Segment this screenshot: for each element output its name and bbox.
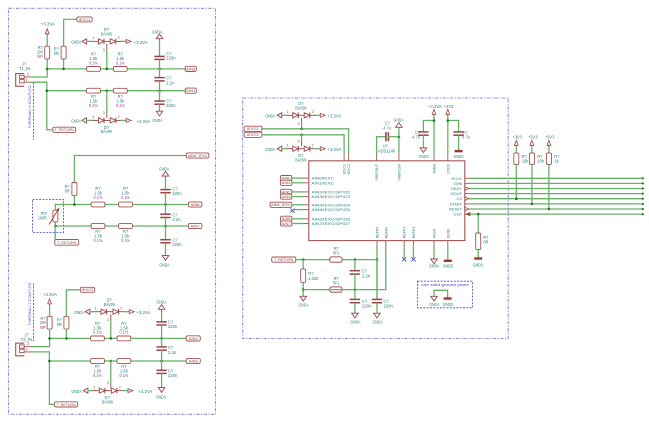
wire xyxy=(49,403,54,405)
pin IEXC2 (top) xyxy=(348,153,350,161)
svg-text:DRDY: DRDY xyxy=(451,187,462,191)
net label AIN6 xyxy=(188,202,202,207)
svg-text:GNDA: GNDA xyxy=(156,394,166,399)
svg-text:0.1%: 0.1% xyxy=(116,103,125,108)
svg-text:THERMALLY COUPLED: THERMALLY COUPLED xyxy=(27,282,32,325)
svg-text:0.1%: 0.1% xyxy=(94,238,103,243)
wire net RESET (to header) xyxy=(470,208,643,210)
net label T_RETURN (T2) xyxy=(55,402,78,407)
svg-text:1: 1 xyxy=(26,348,28,352)
analog ground symbol GNDA (below C filter T2) xyxy=(158,388,165,393)
svg-text:3.3n: 3.3n xyxy=(168,350,177,355)
svg-text:1: 1 xyxy=(95,307,97,311)
digital ground symbol GNDD (plane note) xyxy=(444,297,452,299)
svg-text:+3.3VA: +3.3VA xyxy=(134,40,148,45)
svg-text:2: 2 xyxy=(27,72,29,76)
svg-text:GNDD: GNDD xyxy=(443,302,453,307)
wire xyxy=(65,329,67,338)
svg-text:GNDA: GNDA xyxy=(159,263,169,268)
wire xyxy=(119,311,124,313)
svg-text:AIN4_IEXC: AIN4_IEXC xyxy=(188,153,208,158)
wire ground tie xyxy=(434,290,448,297)
analog ground symbol GNDA (AVDD cap) xyxy=(420,148,427,153)
analog ground symbol GNDA (below C filter RTD) xyxy=(162,256,169,261)
svg-text:IEXC2: IEXC2 xyxy=(347,164,351,175)
analog ground symbol GNDA (REFN0 cap) xyxy=(352,313,359,318)
pin RESET (right) xyxy=(465,208,471,210)
wire xyxy=(73,196,75,205)
svg-text:+3.3VA: +3.3VA xyxy=(138,389,152,394)
analog ground symbol GNDA (AVSS) xyxy=(431,259,438,264)
wire xyxy=(389,136,399,138)
pin VREFOUT (top) xyxy=(376,153,378,161)
svg-text:+3.3VA: +3.3VA xyxy=(43,292,57,297)
svg-text:2.2n: 2.2n xyxy=(362,273,371,278)
svg-text:+3V3: +3V3 xyxy=(545,135,555,140)
svg-text:3: 3 xyxy=(107,381,109,385)
frame: right ADC block dashed border xyxy=(243,98,509,339)
wire xyxy=(282,114,288,116)
frame: RTD dashed box xyxy=(33,200,64,233)
svg-text:2: 2 xyxy=(120,307,122,311)
wire xyxy=(32,338,50,346)
svg-text:100R: 100R xyxy=(38,215,47,220)
svg-text:0.1%: 0.1% xyxy=(89,103,98,108)
wire xyxy=(422,121,424,132)
svg-text:RESET: RESET xyxy=(449,208,463,212)
digital ground symbol GNDD (DGND) xyxy=(444,260,452,262)
svg-text:AIN3: AIN3 xyxy=(189,358,198,363)
svg-text:1: 1 xyxy=(26,78,28,82)
svg-text:220n: 220n xyxy=(362,304,372,309)
wire xyxy=(159,82,161,91)
pin AIN2/IEXC/GPIO2 (left) xyxy=(303,191,309,193)
pin AIN0/IEXC (left) xyxy=(303,177,309,179)
svg-text:+3.3VA: +3.3VA xyxy=(327,147,341,152)
svg-text:CLK: CLK xyxy=(454,213,463,217)
wire net T1+ (to AIN0) xyxy=(47,68,185,70)
wire xyxy=(90,311,96,313)
wire xyxy=(447,116,449,153)
wire xyxy=(165,205,167,214)
svg-text:220n: 220n xyxy=(172,191,182,196)
no-connect X (AIN5) xyxy=(290,209,294,213)
pin CLK (right) xyxy=(465,213,471,215)
svg-text:1: 1 xyxy=(92,115,94,119)
wire net REFP0 filter xyxy=(296,259,377,261)
svg-text:220n: 220n xyxy=(383,304,393,309)
wire xyxy=(32,69,47,77)
wire xyxy=(448,120,459,122)
wire xyxy=(161,374,163,387)
net label IEXC1 (right box) xyxy=(244,126,262,131)
wire xyxy=(54,205,56,211)
net label T_RETURN (RTD) xyxy=(55,240,79,246)
svg-text:AIN4_IEXC: AIN4_IEXC xyxy=(271,202,291,207)
wire xyxy=(117,390,122,392)
frame: thermally coupled dashed line (T2) xyxy=(33,283,35,342)
svg-text:220n: 220n xyxy=(168,324,178,329)
svg-text:IEXC1: IEXC1 xyxy=(343,164,347,175)
wire xyxy=(310,148,315,150)
svg-text:AIN3/IEXC/GPIO3: AIN3/IEXC/GPIO3 xyxy=(312,195,351,199)
wire xyxy=(88,390,94,392)
wire xyxy=(63,59,65,69)
svg-text:2: 2 xyxy=(118,36,120,40)
svg-text:GNDA: GNDA xyxy=(419,154,429,159)
svg-text:SCLK: SCLK xyxy=(452,177,463,181)
wire REFN0 net xyxy=(385,246,387,289)
svg-text:2: 2 xyxy=(118,115,120,119)
svg-text:1: 1 xyxy=(286,110,288,114)
svg-text:1: 1 xyxy=(92,36,94,40)
analog ground symbol GNDA (VREFCOM) xyxy=(396,123,403,128)
pin START (right) xyxy=(465,203,471,205)
svg-text:GNDA: GNDA xyxy=(71,40,81,45)
svg-text:220n: 220n xyxy=(166,103,176,108)
wire REFN1 stub xyxy=(412,246,414,257)
svg-text:REFN1: REFN1 xyxy=(412,227,416,239)
wire DGND xyxy=(447,246,449,259)
net label T_RETURN (T1) xyxy=(53,127,76,132)
pin 3 centre tap xyxy=(110,314,112,319)
svg-text:AIN6: AIN6 xyxy=(191,202,200,207)
wire net CS (to header) xyxy=(470,198,643,200)
power symbol +3.3VA xyxy=(126,40,131,44)
svg-text:0R: 0R xyxy=(65,188,70,193)
svg-text:T1_IN: T1_IN xyxy=(19,66,30,71)
wire xyxy=(74,156,186,183)
svg-text:DGND: DGND xyxy=(446,228,450,238)
net label IEXC2 (right box) xyxy=(244,132,262,137)
pin AIN6/IEXC/GPIO6 (left) xyxy=(303,218,309,220)
wire xyxy=(531,165,533,204)
pin AIN4/IEXC/GPIO4 (left) xyxy=(303,204,309,206)
wire xyxy=(515,147,517,153)
wire xyxy=(46,36,48,47)
svg-text:0.1%: 0.1% xyxy=(116,60,125,65)
pin AIN7/IEXC/GPIO7 (left) xyxy=(303,223,309,225)
power symbol +3.3VA xyxy=(320,147,325,151)
wire net DIN (to header) xyxy=(470,182,643,184)
svg-text:0.1%: 0.1% xyxy=(119,330,128,335)
pin REFN0 (bottom) xyxy=(385,241,387,247)
wire net T1- (to AIN1) xyxy=(47,90,185,92)
wire xyxy=(161,326,163,339)
svg-text:AIN3: AIN3 xyxy=(282,194,291,199)
wire net SCLK (to header) xyxy=(470,177,643,179)
wire net T2- (to AIN3) xyxy=(49,360,186,362)
no-connect X (REFN1) xyxy=(411,257,415,261)
net label AIN1 (right box) xyxy=(281,180,292,185)
wire xyxy=(422,136,424,148)
frame: left input block dashed border xyxy=(9,8,216,414)
wire xyxy=(159,60,161,69)
wire xyxy=(302,282,304,296)
power symbol +3.3VA xyxy=(320,113,325,117)
pin DVDD (top) xyxy=(447,153,449,161)
svg-text:VREFCOM: VREFCOM xyxy=(397,164,401,181)
svg-text:2: 2 xyxy=(119,385,121,389)
svg-text:AIN6/IEXC/GPIO6: AIN6/IEXC/GPIO6 xyxy=(312,217,351,221)
wire xyxy=(292,196,303,198)
svg-text:T_RETURN: T_RETURN xyxy=(274,257,293,262)
wire IEXC1 net xyxy=(262,129,349,153)
wire xyxy=(64,19,77,46)
svg-text:0.1%: 0.1% xyxy=(93,373,102,378)
svg-text:220n: 220n xyxy=(168,373,178,378)
wire xyxy=(54,226,56,242)
power symbol +3.3VA xyxy=(128,389,133,393)
svg-text:GNDA: GNDA xyxy=(265,114,275,119)
svg-text:0.1%: 0.1% xyxy=(119,373,128,378)
svg-text:AIN7: AIN7 xyxy=(282,221,291,226)
pin AVDD (top) xyxy=(433,153,435,161)
svg-text:RF1: RF1 xyxy=(333,251,340,256)
svg-text:T_RETURN: T_RETURN xyxy=(57,402,76,407)
wire xyxy=(531,147,533,153)
svg-text:CS: CS xyxy=(457,197,463,201)
svg-text:220n: 220n xyxy=(166,55,176,60)
wire xyxy=(54,222,56,226)
svg-text:GNDA: GNDA xyxy=(298,302,308,307)
wire xyxy=(66,290,80,317)
wire xyxy=(161,338,163,346)
wire xyxy=(398,128,400,137)
svg-text:2: 2 xyxy=(27,342,29,346)
wire xyxy=(310,114,315,116)
net label AIN3 (right box) xyxy=(281,194,292,199)
net label AIN2 xyxy=(186,336,200,341)
diode D? BAV99 (dual) xyxy=(293,146,299,151)
net label AIN0 (right box) xyxy=(281,176,292,181)
svg-text:BAV99: BAV99 xyxy=(101,32,113,37)
svg-text:BAV99: BAV99 xyxy=(102,399,114,404)
svg-text:3: 3 xyxy=(298,122,300,126)
digital ground symbol GNDD (DVDD cap) xyxy=(455,150,463,152)
svg-text:2.2n: 2.2n xyxy=(166,80,175,85)
svg-text:3: 3 xyxy=(103,48,105,52)
diode D? BAV99 (dual) xyxy=(293,113,299,118)
svg-text:GNDA: GNDA xyxy=(152,118,162,123)
svg-text:+3.3VA: +3.3VA xyxy=(136,119,150,124)
svg-text:2.2n: 2.2n xyxy=(172,217,181,222)
svg-text:GNDA: GNDA xyxy=(152,29,162,34)
pin DOUT (right) xyxy=(465,193,471,195)
pin IEXC1 (top) xyxy=(343,153,345,161)
svg-text:one solid ground plane: one solid ground plane xyxy=(421,283,469,287)
svg-text:0R: 0R xyxy=(54,51,59,56)
pin AIN1/IEXC (left) xyxy=(303,182,309,184)
pin DIN (right) xyxy=(465,182,471,184)
svg-text:T_RETURN: T_RETURN xyxy=(57,240,76,245)
wire IEXC2 net xyxy=(262,135,344,153)
svg-text:2: 2 xyxy=(312,110,314,114)
wire xyxy=(292,177,303,179)
svg-text:0.1%: 0.1% xyxy=(93,330,102,335)
wire xyxy=(292,191,303,193)
net label AIN0 xyxy=(185,66,196,71)
svg-text:NP: NP xyxy=(40,325,46,330)
wire xyxy=(477,250,479,258)
svg-text:1: 1 xyxy=(286,144,288,148)
svg-text:+3V3: +3V3 xyxy=(444,104,454,109)
pin REFN1 (bottom) xyxy=(412,241,414,247)
svg-text:IEXC1: IEXC1 xyxy=(79,17,91,22)
pin 3 centre tap xyxy=(301,118,303,123)
wire xyxy=(49,329,51,338)
svg-text:VREFOUT: VREFOUT xyxy=(375,163,379,180)
wire xyxy=(159,69,161,77)
svg-text:U?: U? xyxy=(383,143,389,148)
svg-text:AIN2: AIN2 xyxy=(189,336,198,341)
svg-text:T_RETURN: T_RETURN xyxy=(55,127,74,132)
svg-text:GNDD: GNDD xyxy=(453,154,463,159)
svg-text:AIN5/IEXC/GPIO5: AIN5/IEXC/GPIO5 xyxy=(312,208,351,212)
wire xyxy=(292,204,303,206)
wire xyxy=(292,182,303,184)
wire net RTD+ (to AIN6) xyxy=(55,204,188,206)
svg-text:0.1%: 0.1% xyxy=(89,60,98,65)
wire xyxy=(423,120,434,122)
svg-text:AIN4/IEXC/GPIO4: AIN4/IEXC/GPIO4 xyxy=(312,203,351,207)
net label AIN4_IEXC (right box) xyxy=(270,202,292,207)
svg-text:IEXC1: IEXC1 xyxy=(247,126,259,131)
wire xyxy=(433,116,435,153)
pin 3 centre tap xyxy=(106,44,108,49)
svg-text:AIN0/IEXC: AIN0/IEXC xyxy=(312,177,335,181)
svg-text:10k: 10k xyxy=(537,159,545,164)
digital ground symbol GNDD (CLK R) xyxy=(474,257,482,259)
wire xyxy=(292,218,303,220)
svg-text:BAV99: BAV99 xyxy=(104,302,116,307)
svg-text:AIN1: AIN1 xyxy=(186,88,195,93)
svg-text:AIN7: AIN7 xyxy=(191,223,200,228)
net label IEXC1 (left box) xyxy=(77,17,92,22)
wire xyxy=(398,137,400,154)
analog ground symbol GNDA (ref resistor) xyxy=(300,296,307,301)
svg-text:+3.3VA: +3.3VA xyxy=(41,22,55,27)
svg-text:GNDD: GNDD xyxy=(473,262,483,267)
wire xyxy=(110,320,112,339)
wire xyxy=(548,147,550,153)
wire net RTD- (to AIN7) xyxy=(55,225,188,227)
wire xyxy=(301,123,303,129)
wire xyxy=(32,82,47,130)
net label AIN3 xyxy=(186,358,200,363)
net label IEXC2 (left box) xyxy=(80,287,94,292)
svg-text:+3V3: +3V3 xyxy=(528,135,538,140)
wire xyxy=(116,40,121,42)
svg-text:AVSS: AVSS xyxy=(433,228,437,238)
wire xyxy=(295,209,304,211)
svg-text:BAV99: BAV99 xyxy=(101,129,113,134)
svg-text:1: 1 xyxy=(93,385,95,389)
wire xyxy=(106,91,108,113)
svg-text:GNDA: GNDA xyxy=(393,117,403,122)
wire xyxy=(477,214,479,233)
svg-text:GNDA: GNDA xyxy=(429,263,439,268)
wire xyxy=(282,148,288,150)
svg-text:GNDA: GNDA xyxy=(71,389,81,394)
svg-text:GNDA: GNDA xyxy=(74,310,84,315)
svg-text:+3.3VA: +3.3VA xyxy=(327,114,341,119)
svg-text:GNDA: GNDA xyxy=(372,320,382,325)
svg-text:+3V3: +3V3 xyxy=(512,135,522,140)
svg-text:NP: NP xyxy=(37,54,43,59)
op-amp / ADC U? ADS1248 body xyxy=(309,161,465,241)
svg-text:RF1: RF1 xyxy=(333,281,340,286)
svg-text:+3.3VA: +3.3VA xyxy=(136,310,150,315)
svg-text:0R: 0R xyxy=(483,240,488,245)
diode D? BAV99 (dual) xyxy=(98,39,104,44)
net label AIN7 xyxy=(188,223,202,228)
svg-text:AIN1: AIN1 xyxy=(282,180,291,185)
wire xyxy=(165,193,167,204)
net label AIN4_IEXC xyxy=(186,153,209,158)
analog ground symbol GNDA (plane note) xyxy=(431,296,438,301)
svg-text:3: 3 xyxy=(103,111,105,115)
wire AVSS xyxy=(433,246,435,259)
wire REFP0 net xyxy=(376,246,378,296)
wire net CLK (to header) xyxy=(470,213,643,215)
wire xyxy=(159,105,161,111)
svg-text:3.32K: 3.32K xyxy=(308,276,319,281)
svg-text:DIN: DIN xyxy=(454,182,462,186)
pin DRDY (right) xyxy=(465,188,471,190)
svg-text:GNDA: GNDA xyxy=(350,320,360,325)
wire xyxy=(46,59,48,69)
svg-text:GNDA: GNDA xyxy=(429,302,439,307)
svg-text:0R: 0R xyxy=(57,322,62,327)
svg-text:0.1%: 0.1% xyxy=(94,195,103,200)
svg-text:2: 2 xyxy=(312,144,314,148)
pin REFP1 (bottom) xyxy=(403,241,405,247)
svg-text:3: 3 xyxy=(298,139,300,143)
svg-text:BAV99: BAV99 xyxy=(295,157,307,162)
svg-text:START: START xyxy=(450,202,463,206)
net label T_RETURN (right box) xyxy=(272,257,296,262)
svg-text:IEXC2: IEXC2 xyxy=(247,132,259,137)
frame: one solid ground plane dashed box xyxy=(418,281,473,308)
wire xyxy=(161,361,163,370)
svg-text:GNDA: GNDA xyxy=(71,119,81,124)
svg-text:4.7u: 4.7u xyxy=(383,125,391,130)
pin AIN5/IEXC/GPIO5 (left) xyxy=(303,209,309,211)
wire xyxy=(377,137,386,154)
diode D? BAV99 (dual) xyxy=(99,388,105,393)
wire xyxy=(165,179,167,189)
wire xyxy=(161,351,163,361)
svg-text:REFP1: REFP1 xyxy=(403,227,407,239)
wire xyxy=(165,226,167,239)
svg-text:IEXC2: IEXC2 xyxy=(82,287,94,292)
pin AIN3/IEXC/GPIO3 (left) xyxy=(303,196,309,198)
wire xyxy=(87,40,93,42)
diode D? BAV99 (dual) xyxy=(101,309,107,314)
pin REFP0 (bottom) xyxy=(376,241,378,247)
svg-text:GNDA: GNDA xyxy=(159,166,169,171)
svg-text:BAV99: BAV99 xyxy=(295,105,307,110)
wire xyxy=(106,49,108,69)
svg-text:10k: 10k xyxy=(522,159,530,164)
svg-text:REFN0: REFN0 xyxy=(384,227,388,239)
svg-text:AIN2/IEXC/GPIO2: AIN2/IEXC/GPIO2 xyxy=(312,190,351,194)
analog ground symbol GNDA (below C filter T1) xyxy=(156,111,163,116)
power symbol +3.3VA xyxy=(129,310,134,314)
power symbol +3.3VA xyxy=(126,119,131,123)
svg-text:THERMALLY COUPLED: THERMALLY COUPLED xyxy=(27,85,32,128)
